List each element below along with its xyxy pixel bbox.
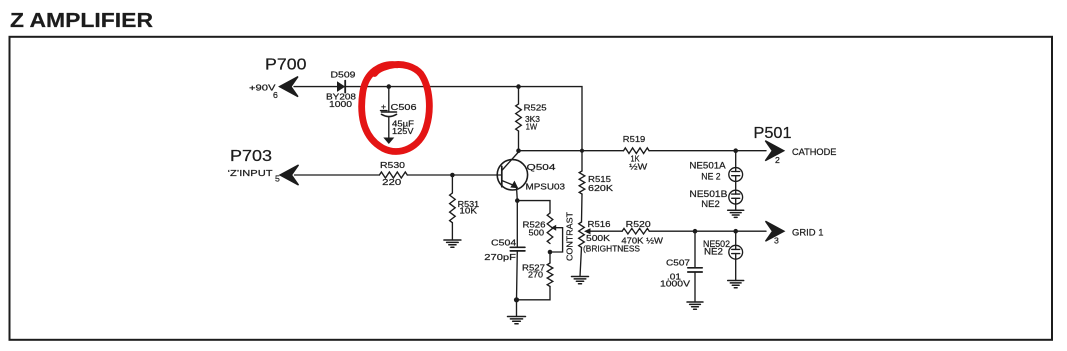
wire NE502 to ground: [735, 259, 737, 280]
ground C507: [687, 302, 703, 309]
connector P700 arrow: [280, 77, 299, 97]
resistor R519 value 1K: [631, 153, 640, 163]
node C506 junction: [387, 84, 392, 89]
svg-text:NE2: NE2: [701, 199, 720, 209]
resistor R525 label: [524, 103, 547, 113]
connector P703 pin 5: [275, 174, 280, 184]
svg-text:500: 500: [529, 228, 545, 238]
svg-text:C506: C506: [391, 102, 417, 112]
svg-text:P703: P703: [230, 148, 272, 165]
wire R531 top: [451, 175, 453, 193]
resistor R519 value halfW: [629, 162, 648, 172]
resistor R515 symbol: [579, 171, 585, 194]
svg-text:+90V: +90V: [249, 83, 276, 93]
lamp NE501B symbol: [729, 190, 743, 204]
svg-text:Q504: Q504: [527, 162, 556, 172]
wire R515 to R516: [581, 194, 584, 222]
resistor R520 value: [621, 236, 663, 246]
connector P501 CATHODE label: [792, 147, 836, 157]
capacitor C506 value 125V: [392, 126, 414, 136]
node C504 ground junction: [514, 297, 519, 302]
transistor Q504 label: [527, 162, 556, 172]
resistor R520 label: [626, 219, 651, 229]
potentiometer R526 element: [547, 213, 553, 244]
capacitor C507 label: [666, 258, 690, 268]
wire R526 top link: [549, 252, 551, 263]
resistor R515 label: [588, 174, 611, 184]
svg-text:3: 3: [774, 236, 779, 246]
connector P501 GRID 1 label: [792, 228, 824, 238]
node R531 junction: [450, 173, 455, 178]
resistor R520 symbol: [622, 228, 649, 234]
svg-text:10K: 10K: [459, 206, 477, 216]
svg-text:2: 2: [775, 155, 780, 165]
capacitor C507 value .01: [667, 272, 681, 282]
node emitter junction: [515, 198, 520, 203]
resistor R515 value 620K: [588, 183, 613, 193]
svg-text:1W: 1W: [526, 121, 538, 131]
ground NE501B: [728, 210, 744, 217]
svg-text:NE501A: NE501A: [689, 160, 725, 170]
ground R531: [444, 240, 461, 247]
ground R516: [572, 277, 589, 284]
potentiometer R516 element: [579, 222, 585, 247]
wire R516 to ground: [580, 247, 582, 276]
potentiometer R526 wiper: [551, 225, 563, 252]
svg-text:R516: R516: [588, 219, 611, 229]
connector P700 label: [265, 56, 307, 73]
resistor R519 label: [623, 134, 646, 144]
capacitor C504: [510, 247, 525, 299]
wire cathode rail left: [519, 150, 624, 152]
wire grid rail: [649, 230, 766, 232]
potentiometer R526 value 500: [529, 228, 545, 238]
svg-text:125V: 125V: [392, 126, 414, 136]
node R525 top junction: [516, 84, 521, 89]
svg-text:P501: P501: [754, 125, 792, 142]
connector P703 label: [230, 148, 272, 165]
connector P501 arrow pin3: [766, 221, 785, 241]
svg-text:1000: 1000: [329, 99, 352, 109]
resistor R527 value 270: [528, 270, 543, 280]
svg-text:NE501B: NE501B: [689, 189, 727, 199]
wire C504 to ground: [516, 300, 518, 317]
wire NE501A lead: [735, 151, 737, 172]
svg-text:270pF: 270pF: [484, 252, 516, 262]
wire cathode rail right: [649, 150, 766, 152]
resistor R527 symbol: [547, 263, 553, 286]
label CONTRAST: [565, 211, 575, 261]
wire +90V rail: [294, 87, 582, 151]
lamp NE502 value NE2: [704, 247, 723, 257]
svg-text:R520: R520: [626, 219, 651, 229]
ground C504: [508, 317, 526, 324]
resistor R530 label: [380, 160, 405, 170]
lamp NE501B value NE2: [701, 199, 720, 209]
resistor R525 value 3K3: [525, 114, 540, 124]
svg-text:220: 220: [382, 177, 401, 187]
connector P501 pin 2: [775, 155, 780, 165]
title Z AMPLIFIER: [10, 10, 154, 32]
wire Z input rail: [295, 174, 380, 176]
wire R531 bottom: [451, 223, 453, 240]
resistor R527 label: [522, 263, 545, 273]
transistor Q504 base bar: [501, 166, 503, 187]
svg-text:½W: ½W: [629, 162, 648, 172]
resistor R525 symbol: [516, 104, 522, 131]
transistor Q504 part MPSU03: [526, 181, 566, 191]
svg-text:C507: C507: [666, 258, 690, 268]
svg-text:CATHODE: CATHODE: [792, 147, 836, 157]
lamp NE502 symbol: [729, 245, 743, 259]
capacitor C507: [688, 231, 702, 302]
wire NE502 lead: [735, 231, 737, 249]
capacitor C506 label: [391, 102, 417, 112]
diode D509 symbol: [337, 81, 345, 93]
resistor R519 symbol: [624, 148, 650, 154]
lamp NE501A symbol: [729, 168, 743, 182]
transistor Q504 collector: [502, 152, 519, 171]
node R515 crossing: [580, 149, 584, 153]
diode D509 value BY208: [326, 92, 356, 102]
svg-text:‘Z’INPUT: ‘Z’INPUT: [228, 168, 274, 178]
svg-text:NE2: NE2: [704, 247, 723, 257]
wire R515 top: [581, 151, 583, 171]
capacitor C504 label: [491, 238, 516, 248]
transistor Q504 body: [497, 160, 527, 190]
connector P700 pin 6: [273, 90, 278, 100]
wire NE501B lead: [735, 181, 737, 194]
svg-text:R525: R525: [524, 103, 547, 113]
connector P501 label: [754, 125, 792, 142]
connector P700 +90V label: [249, 83, 276, 93]
svg-text:R519: R519: [623, 134, 646, 144]
svg-text:P700: P700: [265, 56, 307, 73]
connector P703 arrow: [280, 165, 299, 185]
resistor R531 symbol: [450, 193, 456, 223]
ground NE502: [728, 281, 744, 288]
label BRIGHTNESS: [583, 244, 640, 254]
node C507 junction: [693, 229, 698, 234]
svg-text:1000V: 1000V: [660, 279, 690, 289]
ground C506: [383, 138, 394, 145]
svg-text:Z AMPLIFIER: Z AMPLIFIER: [10, 10, 154, 32]
svg-text:MPSU03: MPSU03: [526, 181, 566, 191]
capacitor C507 value 1000V: [660, 279, 690, 289]
potentiometer R516 label: [588, 219, 611, 229]
svg-text:270: 270: [528, 270, 543, 280]
connector P501 arrow pin2: [765, 141, 784, 161]
node R526 R527 junction: [548, 250, 553, 255]
transistor Q504 emitter: [502, 181, 518, 201]
wire R527 bottom: [517, 286, 551, 299]
resistor R525 value 1W: [526, 121, 538, 131]
resistor R531 label: [458, 199, 480, 209]
capacitor C504 value 270pF: [484, 252, 516, 262]
svg-text:D509: D509: [331, 69, 356, 79]
lamp NE501A label: [689, 160, 725, 170]
capacitor C506 value 45uF: [392, 119, 414, 129]
potentiometer R526 label: [523, 220, 546, 230]
svg-text:R530: R530: [380, 160, 405, 170]
capacitor C506 polarity +: [381, 102, 388, 112]
svg-text:NE 2: NE 2: [701, 172, 720, 182]
diode D509 value 1000: [329, 99, 352, 109]
svg-text:6: 6: [273, 90, 278, 100]
potentiometer R516 value 500K: [586, 233, 610, 243]
wire R525 bottom: [518, 131, 520, 151]
wire emitter to C504: [516, 201, 518, 248]
potentiometer R516 wiper: [584, 228, 622, 234]
node collector junction: [516, 148, 521, 153]
connector P501 pin 3: [774, 236, 779, 246]
lamp NE501B label: [689, 189, 727, 199]
wire R530 to base: [407, 174, 502, 176]
svg-text:620K: 620K: [588, 183, 613, 193]
node NE501 junction: [733, 148, 738, 153]
wire NE501B to ground: [735, 204, 737, 210]
diode D509 label: [331, 69, 356, 79]
svg-text:470K ½W: 470K ½W: [621, 236, 663, 246]
svg-text:500K: 500K: [586, 233, 610, 243]
resistor R530 symbol: [379, 172, 407, 178]
resistor R531 value 10K: [459, 206, 477, 216]
lamp NE502 label: [703, 239, 730, 249]
svg-text:C504: C504: [491, 238, 516, 248]
svg-text:GRID 1: GRID 1: [792, 228, 824, 238]
svg-text:CONTRAST: CONTRAST: [565, 211, 575, 261]
lamp NE501A value NE2: [701, 172, 720, 182]
resistor R530 value 220: [382, 177, 401, 187]
wire R525 top: [518, 87, 520, 104]
wire emitter to R526: [517, 201, 550, 213]
connector P703 Z INPUT label: [228, 168, 274, 178]
node NE502 junction: [733, 229, 738, 234]
capacitor C506: [382, 87, 397, 138]
annotation red circle around C506: [362, 64, 430, 151]
